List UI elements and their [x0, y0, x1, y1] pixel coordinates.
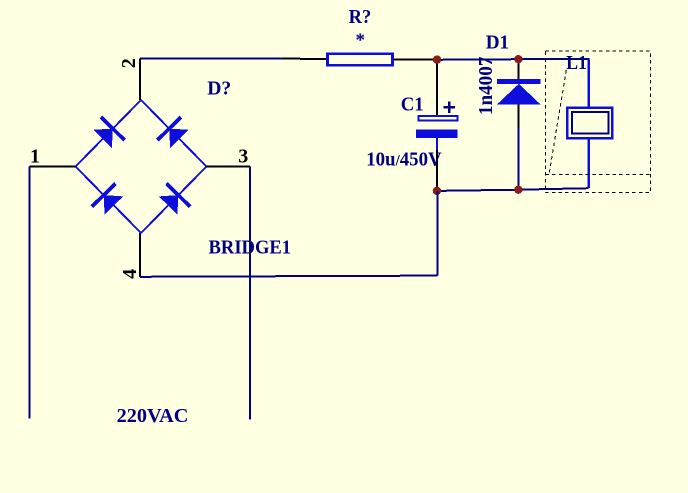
wire left AC lead — [29, 167, 31, 419]
dashed inner line — [546, 174, 651, 176]
wire bottom net D1 junction to lamp — [518, 188, 588, 190]
wire top net from bridge pin2 to resistor — [140, 57, 283, 59]
bridge diode bottom-left — [92, 184, 123, 215]
wire top net to lamp — [518, 58, 589, 60]
svg-text:R?: R? — [349, 6, 372, 28]
junction dot top C1 — [433, 55, 441, 63]
capacitor C1 polarity plus — [443, 102, 455, 113]
bridge pin 3 — [207, 166, 251, 168]
lamp L1 bottom pin — [588, 140, 590, 189]
diode D1 cathode bar — [497, 79, 541, 84]
bridge pin 2 — [139, 59, 141, 101]
svg-text:C1: C1 — [401, 94, 424, 116]
svg-text:4: 4 — [119, 269, 141, 279]
resistor R? pin 2 (right lead) — [394, 58, 437, 60]
wire bottom return horizontal — [140, 276, 438, 277]
svg-text:2: 2 — [118, 58, 140, 68]
svg-text:220VAC: 220VAC — [117, 405, 189, 427]
lamp L1 outer body — [567, 108, 612, 138]
bridge diode top-left — [93, 117, 124, 148]
bridge diode bottom-right — [159, 184, 190, 215]
svg-text:1: 1 — [30, 145, 40, 167]
resistor R? pin 1 (left lead) — [283, 58, 327, 60]
junction dot bottom C1 — [433, 187, 441, 195]
svg-text:D?: D? — [207, 78, 231, 100]
junction dot bottom D1 — [514, 186, 522, 194]
bridge pin 1 — [30, 166, 76, 168]
bridge diode top-right — [157, 117, 188, 148]
wire top net between junctions — [437, 58, 519, 61]
capacitor C1 bottom plate — [416, 129, 458, 138]
svg-text:*: * — [356, 30, 366, 51]
wire right AC lead — [249, 167, 251, 420]
lamp L1 top pin — [588, 60, 590, 108]
svg-text:10u/450V: 10u/450V — [366, 148, 442, 170]
junction dot top D1 — [514, 55, 522, 63]
svg-text:1n4007: 1n4007 — [475, 57, 497, 116]
lamp L1 inner body — [572, 112, 608, 133]
capacitor C1 top plate — [418, 116, 457, 120]
wire bottom net C1 junction to D1 junction — [437, 190, 519, 191]
capacitor C1 bottom pin — [436, 150, 438, 190]
dashed enclosure box around L1 — [546, 51, 651, 193]
svg-text:L1: L1 — [566, 52, 587, 74]
diode D1 bottom pin — [517, 104, 519, 128]
bridge pin 4 — [139, 233, 141, 277]
diode D1 triangle — [497, 84, 541, 105]
capacitor C1 top pin — [436, 60, 438, 116]
dashed diagonal — [549, 70, 566, 175]
diode D1 top pin — [517, 60, 519, 80]
svg-text:3: 3 — [238, 145, 248, 167]
bridge diamond edges — [76, 100, 207, 233]
wire from D1 to bottom net — [517, 128, 519, 189]
capacitor C1 bottom stub — [436, 138, 438, 150]
wire bottom return vertical to C1 junction — [436, 191, 438, 276]
svg-text:D1: D1 — [486, 32, 509, 54]
resistor R? body — [328, 54, 393, 65]
